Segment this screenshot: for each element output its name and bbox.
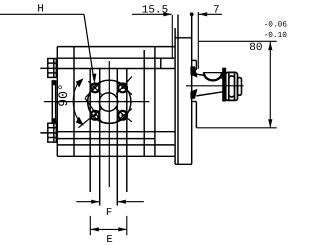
pump body outline top edge <box>57 46 174 48</box>
body internal horizontal line y58 <box>57 57 174 59</box>
svg-text:F: F <box>106 207 112 219</box>
bearing boss right edge upper <box>195 60 197 70</box>
shaft root wedge upper <box>190 66 197 77</box>
extension line for 15.5 at x172 <box>171 15 173 58</box>
svg-text:15.5: 15.5 <box>142 4 168 16</box>
body internal horizontal line y138 <box>57 138 155 140</box>
15.5 arrowhead <box>163 12 172 16</box>
7 arrowhead <box>199 12 208 16</box>
threaded mounting hole bottom-right with cross <box>116 109 132 122</box>
left mounting bolt bottom (ladder stack) <box>48 123 57 142</box>
svg-text:80: 80 <box>249 42 262 54</box>
svg-text:90°: 90° <box>56 83 71 106</box>
leader line H horizontal <box>0 14 94 80</box>
left mounting bolt top (ladder stack) <box>48 59 57 78</box>
80 bottom arrowhead <box>268 119 272 128</box>
mounting flange inner vertical line <box>177 15 179 165</box>
svg-text:-0.06: -0.06 <box>264 20 287 29</box>
body internal horizontal line y131 <box>57 131 175 133</box>
bearing boss top edge <box>192 59 197 61</box>
shaft taper bottom edge <box>196 92 222 96</box>
90 degree arc arrowhead bottom <box>76 116 84 125</box>
bearing boss step line <box>192 101 197 103</box>
body internal vertical joint x74 <box>73 47 75 157</box>
left side port slot bar <box>52 81 55 123</box>
E arrowhead right <box>118 227 127 231</box>
body internal vertical joint x144 <box>143 50 145 156</box>
shaft root wedge lower <box>190 89 197 99</box>
mounting pilot circle <box>88 80 131 123</box>
dimension E line <box>90 228 127 230</box>
svg-text:-0.10: -0.10 <box>264 31 287 40</box>
mounting flange right edge <box>191 14 193 164</box>
E extension line left lower <box>90 216 127 235</box>
hex nut flat line right <box>234 72 236 100</box>
leader H arrowhead <box>92 74 96 84</box>
dimension 15.5 line <box>132 14 172 58</box>
hex nut flat line left <box>228 72 230 100</box>
extension line top for 80 <box>198 40 276 42</box>
dimension 80 vertical line <box>196 41 276 128</box>
pump body bottom edge <box>57 155 174 157</box>
E extension line right lower <box>126 216 128 235</box>
mounting flange top face line <box>175 37 192 39</box>
shaft taper top edge <box>196 74 222 78</box>
body internal horizontal line y145 <box>57 144 174 146</box>
90 degree dimension arc <box>73 80 80 123</box>
E arrowhead left <box>90 227 99 231</box>
washer (dark bar) <box>223 68 226 101</box>
side view shaft centerline <box>186 85 244 87</box>
dimension F line right part <box>117 201 144 203</box>
threaded stub <box>238 78 242 96</box>
extension line bottom for 80 <box>196 127 276 129</box>
vertical centerline of bolt pattern <box>108 61 110 187</box>
woodruff key slot bowl <box>204 73 222 81</box>
90 degree arc arrowhead top <box>76 78 84 87</box>
F arrowhead left <box>91 200 100 204</box>
svg-text:7: 7 <box>213 4 220 16</box>
pump body left edge <box>56 47 58 157</box>
body internal horizontal line y68 <box>57 68 175 70</box>
gear chamber vertical line right <box>126 69 128 192</box>
dimension 7 line <box>198 12 222 69</box>
body internal vertical joint x155 <box>154 47 156 157</box>
mounting flange bottom edge <box>175 163 192 165</box>
shaft bore circle <box>99 93 117 111</box>
F arrowhead right <box>117 200 126 204</box>
hex nut outline <box>226 72 238 100</box>
hex nut chamfer arc bottom <box>229 96 235 97</box>
shaft bore tangent line right (F extension) <box>116 69 118 206</box>
horizontal centerline of bolt pattern <box>44 101 149 103</box>
shaft bore tangent line left (F extension) <box>99 69 101 206</box>
threaded mounting hole top-right with cross <box>116 77 132 95</box>
body internal vertical stub x161 <box>160 58 162 68</box>
extension line for 7 (key line) <box>197 12 199 69</box>
80 top arrowhead <box>268 42 272 51</box>
mounting flange left edge <box>174 28 176 164</box>
dimension F line left part <box>76 201 144 203</box>
svg-text:E: E <box>106 234 112 245</box>
threaded mounting hole top-left with cross <box>85 81 101 97</box>
svg-text:H: H <box>37 3 44 15</box>
leader line H diagonal <box>84 14 94 80</box>
hex nut chamfer arc top <box>229 76 235 77</box>
bearing boss right edge lower <box>195 102 197 128</box>
threaded mounting hole bottom-left with cross <box>79 98 102 128</box>
gear chamber vertical line left <box>89 69 91 192</box>
shared dimension dot <box>190 12 194 16</box>
